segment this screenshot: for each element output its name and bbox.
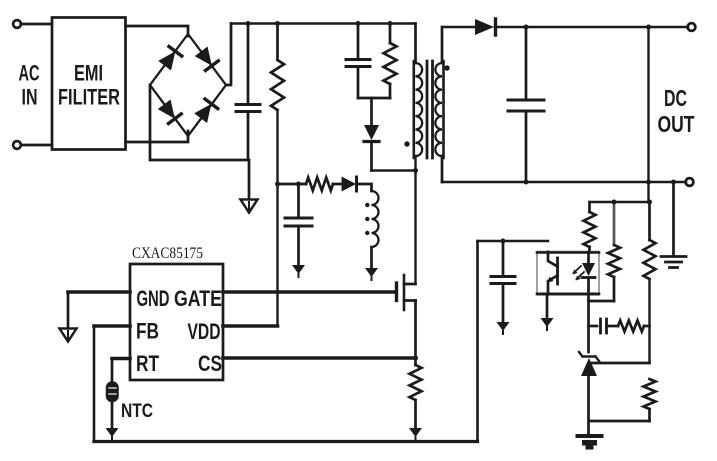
svg-text:EMI: EMI [74,61,103,86]
svg-text:CXAC85175: CXAC85175 [132,245,203,262]
svg-text:NTC: NTC [121,401,153,422]
svg-text:FB: FB [136,319,159,344]
svg-text:DC: DC [664,85,687,111]
svg-text:GND: GND [137,286,170,311]
svg-text:OUT: OUT [658,111,695,137]
svg-text:VDD: VDD [188,319,221,344]
svg-text:FILITER: FILITER [58,85,120,110]
svg-text:AC: AC [19,61,40,86]
svg-text:IN: IN [22,85,38,110]
svg-text:RT: RT [136,351,159,376]
svg-text:CS: CS [198,351,222,376]
svg-text:GATE: GATE [174,286,222,311]
